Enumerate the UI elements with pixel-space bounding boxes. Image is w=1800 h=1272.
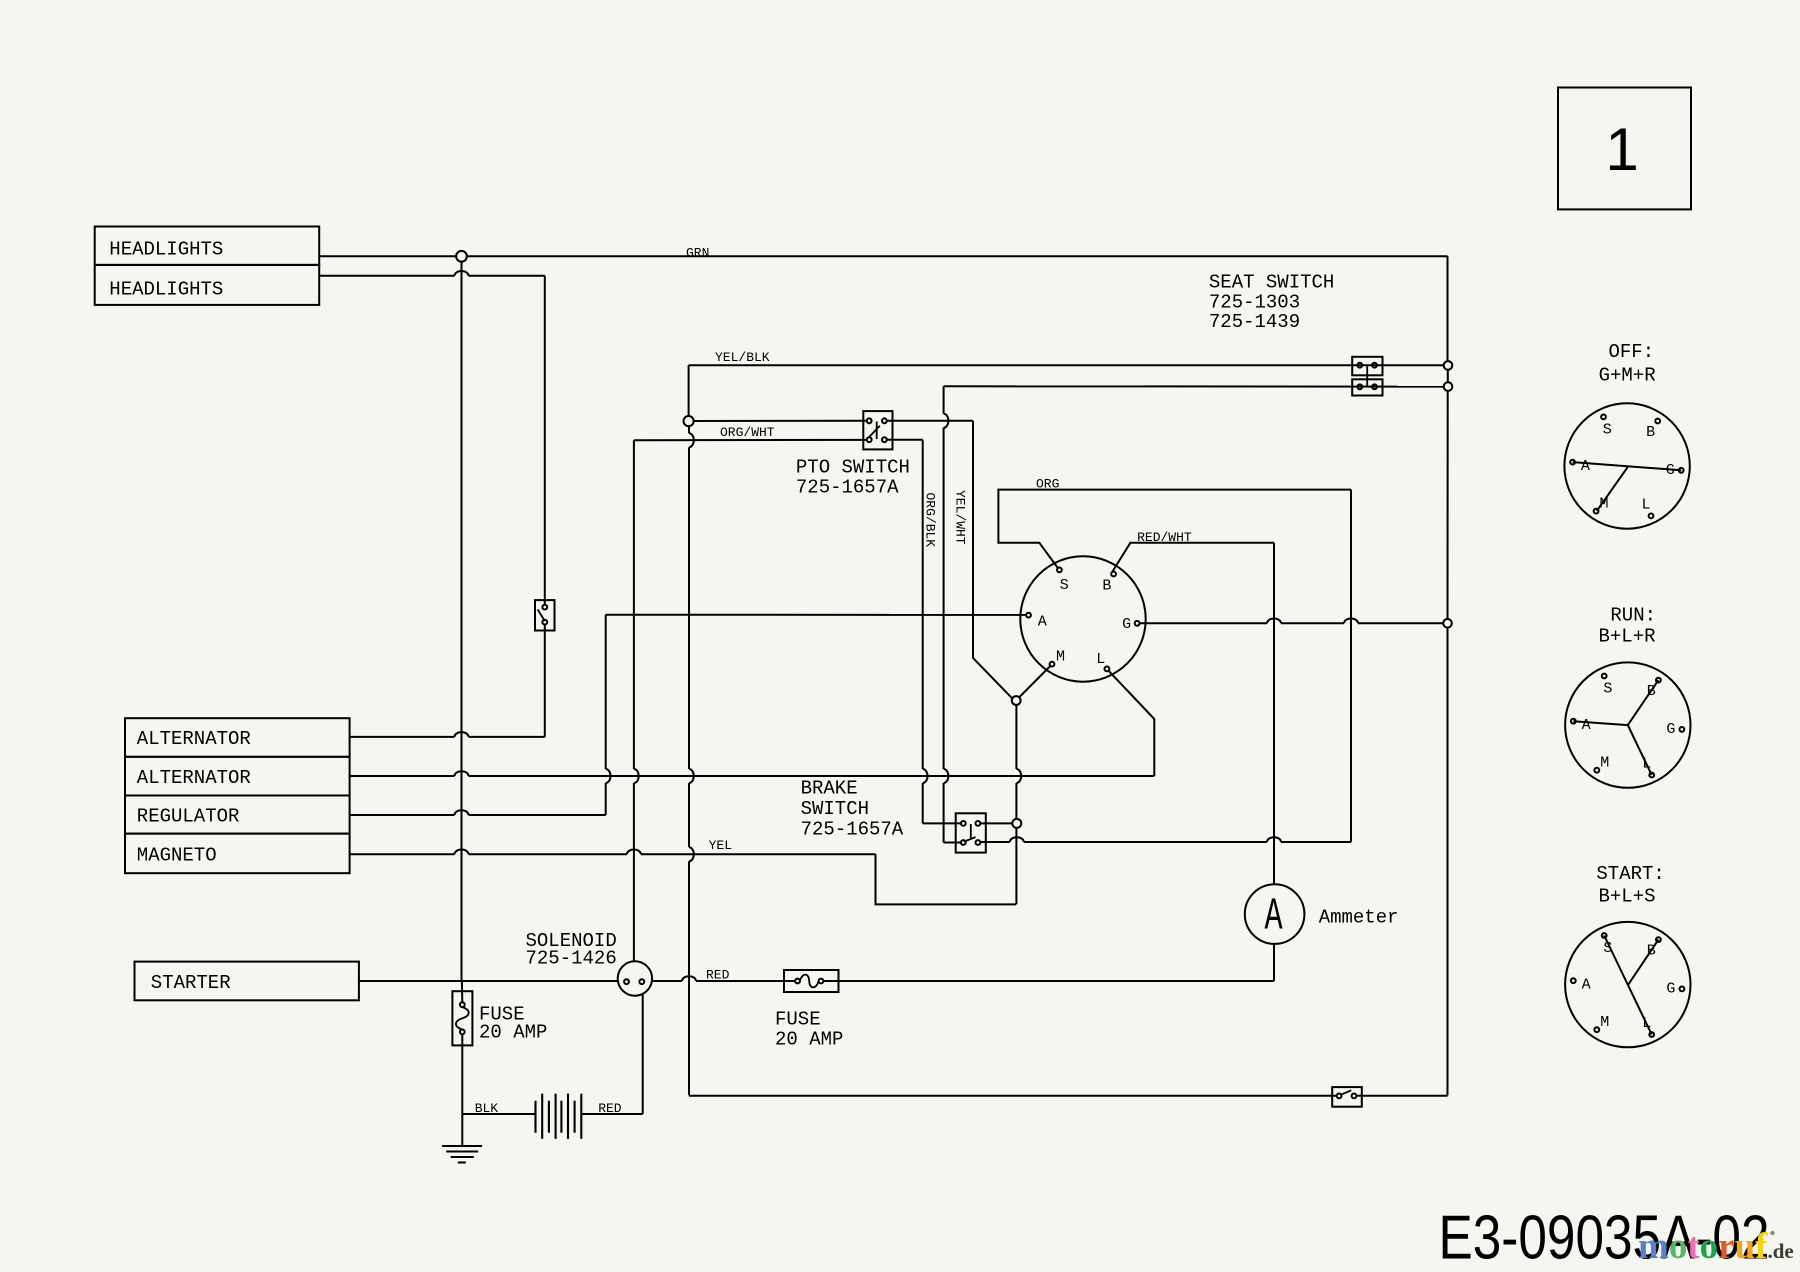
wire STARTER to solenoid — [359, 980, 618, 982]
node brake connector circle — [1012, 819, 1021, 828]
solenoid circle — [618, 961, 652, 995]
wire SW1 drop and alternator link — [544, 276, 546, 737]
OFF position contact line — [1573, 462, 1682, 470]
box HEADLIGHTS (lower) — [95, 265, 320, 305]
battery — [536, 1094, 582, 1139]
RUN position contact line — [1628, 680, 1659, 725]
lever PTO — [869, 422, 879, 440]
ammeter circle — [1245, 884, 1305, 944]
svg-text:REGULATOR: REGULATOR — [137, 806, 240, 828]
svg-text:B: B — [1102, 578, 1111, 595]
brake switch box — [956, 813, 986, 852]
wire ORG/WHT to PTO — [634, 439, 867, 441]
wire MAGNETO YEL to brake node — [350, 850, 1016, 905]
svg-text:STARTER: STARTER — [151, 972, 231, 994]
svg-text:A: A — [1581, 458, 1590, 475]
pin PTO top-left — [867, 418, 872, 423]
switch SW1 (headlight circuit) — [535, 600, 555, 630]
START position contact line — [1628, 940, 1658, 985]
wire PTO bottom-right to ORG/BLK drop — [887, 439, 923, 441]
svg-text:MAGNETO: MAGNETO — [137, 845, 217, 867]
svg-text:START:: START: — [1596, 863, 1664, 885]
node bus circle lower — [1444, 382, 1453, 391]
fuse1 element — [456, 1007, 469, 1029]
svg-text:BRAKE: BRAKE — [801, 778, 858, 800]
lever brake — [964, 824, 976, 842]
svg-text:B: B — [1646, 424, 1655, 441]
fuse2 element — [800, 975, 819, 988]
svg-text:A: A — [1582, 977, 1591, 994]
wire PTO top from junction — [693, 420, 867, 422]
pin brake TR — [976, 821, 981, 826]
pin fuse2 right — [819, 979, 824, 984]
wire vertical from headlight junction to starter bus — [461, 261, 464, 1114]
sheet number box — [1558, 88, 1691, 210]
pin PTO bottom-right — [882, 437, 887, 442]
pin fuse2 left — [795, 979, 800, 984]
OFF position pin L — [1649, 514, 1654, 519]
wire A-line vertical x606 — [606, 615, 611, 815]
wire seat lower feed — [944, 385, 1444, 387]
box MAGNETO — [125, 834, 350, 874]
svg-text:L: L — [1096, 651, 1105, 668]
svg-text:20 AMP: 20 AMP — [775, 1029, 843, 1051]
wire ground drop — [461, 1114, 463, 1146]
wire G line to bus — [1140, 619, 1444, 624]
box STARTER — [135, 962, 359, 1001]
svg-text:20 AMP: 20 AMP — [479, 1021, 547, 1043]
svg-text:A: A — [1582, 717, 1591, 734]
svg-text:A: A — [1038, 614, 1047, 631]
wire RED/WHT from B — [1112, 543, 1274, 572]
OFF position pin M — [1594, 509, 1599, 514]
svg-text:ORG: ORG — [1036, 477, 1059, 492]
START position circle — [1565, 922, 1690, 1047]
box ALTERNATOR (lower) — [125, 757, 350, 796]
pin fuse1 bottom — [460, 1030, 465, 1035]
wire ALTERNATOR lower to ignition L — [350, 671, 1155, 776]
svg-text:G: G — [1666, 980, 1675, 997]
svg-text:725-1303: 725-1303 — [1209, 291, 1300, 313]
svg-text:HEADLIGHTS: HEADLIGHTS — [109, 239, 223, 261]
wire ORG/BLK vertical x923 — [923, 440, 961, 824]
svg-text:ORG/BLK: ORG/BLK — [923, 493, 938, 548]
wire ignition A terminal line — [606, 614, 1026, 616]
OFF position pin G — [1679, 468, 1684, 473]
pin seat BL — [1357, 384, 1362, 389]
svg-text:RUN:: RUN: — [1610, 605, 1656, 627]
box HEADLIGHTS (upper) — [95, 227, 320, 265]
RUN position pin A — [1571, 719, 1576, 724]
RUN position circle — [1565, 662, 1690, 787]
svg-text:725-1657A: 725-1657A — [796, 477, 899, 499]
wire PTO top-right to YEL/WHT drop — [887, 420, 973, 422]
RUN position pin L — [1649, 773, 1654, 778]
START position pin M — [1594, 1027, 1599, 1032]
svg-text:725-1426: 725-1426 — [526, 948, 617, 970]
pin seat TR — [1372, 363, 1377, 368]
RUN position pin G — [1680, 727, 1685, 732]
pin SW1 bottom — [542, 620, 547, 625]
pin ignition M — [1050, 662, 1055, 667]
OFF position pin S — [1601, 415, 1606, 420]
lever SW2 — [1341, 1090, 1351, 1094]
wire YEL/WHT vertical x973 — [973, 421, 1013, 699]
svg-text:SEAT SWITCH: SEAT SWITCH — [1209, 272, 1334, 294]
node headlight junction — [456, 251, 467, 262]
svg-text:S: S — [1603, 422, 1612, 439]
svg-text:ALTERNATOR: ALTERNATOR — [137, 728, 251, 750]
pin ignition L — [1105, 667, 1110, 672]
OFF position contact line — [1597, 467, 1628, 511]
svg-text:YEL/BLK: YEL/BLK — [715, 350, 770, 365]
wire brake BR to ORG corner — [980, 837, 1351, 842]
pin solenoid right — [639, 979, 644, 984]
pin solenoid left — [624, 979, 629, 984]
svg-text:M: M — [1056, 649, 1065, 666]
ignition switch circle — [1020, 556, 1145, 681]
OFF position pin B — [1655, 419, 1660, 424]
fuse2 box — [784, 970, 839, 992]
wire bottom bus — [689, 1095, 1448, 1097]
wire ORG/WHT vertical x634 to solenoid — [634, 440, 639, 961]
wire RED solenoid to fuse2 — [652, 976, 795, 981]
svg-text:A: A — [1264, 891, 1282, 943]
svg-text:B+L+R: B+L+R — [1599, 626, 1656, 648]
pin PTO top-right — [882, 418, 887, 423]
wire YEL/BLK to seat switch — [689, 364, 1445, 366]
START position contact line — [1604, 936, 1652, 1035]
pin ignition S — [1057, 568, 1062, 573]
node PTO junction — [684, 416, 694, 426]
pin SW2 left — [1337, 1094, 1342, 1099]
svg-text:1: 1 — [1605, 116, 1638, 183]
pto switch box — [863, 411, 892, 449]
wire REGULATOR to A-line corner — [350, 810, 606, 815]
wire junction to brake connector — [1016, 705, 1021, 905]
pin brake BR — [976, 840, 981, 845]
wire fuse1 to battery BLK — [462, 1113, 535, 1115]
svg-text:BLK: BLK — [475, 1101, 499, 1116]
START position pin S — [1602, 933, 1607, 938]
watermark dot — [1770, 1231, 1774, 1235]
node bus circle YEL/BLK — [1444, 361, 1453, 370]
START position pin A — [1571, 978, 1576, 983]
box ALTERNATOR (upper) — [125, 718, 350, 757]
RUN position pin S — [1602, 674, 1607, 679]
svg-text:M: M — [1600, 1014, 1609, 1031]
lever SW1 — [538, 609, 545, 621]
wire battery RED to solenoid — [581, 993, 642, 1114]
seat connector upper box — [1352, 357, 1382, 376]
svg-text:YEL/WHT: YEL/WHT — [953, 490, 968, 545]
svg-text:G+M+R: G+M+R — [1599, 365, 1656, 387]
switch SW2 box — [1332, 1087, 1362, 1107]
svg-text:B+L+S: B+L+S — [1599, 886, 1656, 908]
wire brake TR to connector — [980, 822, 1012, 824]
wire ORG to S terminal — [998, 490, 1351, 568]
svg-text:ALTERNATOR: ALTERNATOR — [137, 767, 251, 789]
fuse1 box — [452, 991, 472, 1045]
OFF position pin A — [1570, 460, 1575, 465]
wire x689 vertical YEL/BLK corner to bottom bus — [689, 365, 694, 1095]
seat connector link — [1366, 365, 1368, 387]
pin ignition B — [1111, 572, 1116, 577]
box REGULATOR — [125, 796, 350, 834]
pin ignition A — [1026, 613, 1031, 618]
svg-text:FUSE: FUSE — [775, 1009, 821, 1031]
START position pin B — [1656, 937, 1661, 942]
svg-text:S: S — [1060, 577, 1069, 594]
svg-text:RED: RED — [598, 1101, 622, 1116]
svg-text:M: M — [1600, 754, 1609, 771]
pin ignition G — [1135, 621, 1140, 626]
svg-text:PTO SWITCH: PTO SWITCH — [796, 456, 910, 478]
ground symbol — [442, 1146, 482, 1163]
wire x944 vertical seat lower to brake — [944, 386, 961, 842]
svg-text:725-1657A: 725-1657A — [801, 819, 904, 841]
pin seat TL — [1357, 363, 1362, 368]
RUN position contact line — [1628, 725, 1652, 775]
wire RED/WHT vertical to ammeter — [1273, 543, 1275, 885]
wire ORG vertical x1350 — [1350, 490, 1352, 842]
svg-text:S: S — [1603, 681, 1612, 698]
svg-text:GRN: GRN — [686, 246, 709, 261]
node bus circle G — [1443, 619, 1452, 628]
pin SW2 right — [1352, 1094, 1357, 1099]
pin fuse1 top — [460, 1002, 465, 1007]
svg-text:G: G — [1122, 616, 1131, 633]
svg-text:SWITCH: SWITCH — [801, 798, 869, 820]
wire GRN headlights to right bus — [319, 255, 1447, 257]
OFF position circle — [1564, 403, 1689, 528]
pin PTO bottom-left — [867, 437, 872, 442]
wire headlights lower to switch SW1 — [319, 271, 545, 276]
RUN position pin B — [1656, 678, 1661, 683]
pin brake BL — [961, 840, 966, 845]
START position pin L — [1649, 1032, 1654, 1037]
START position pin G — [1680, 987, 1685, 992]
svg-text:L: L — [1641, 496, 1650, 513]
svg-text:Ammeter: Ammeter — [1319, 906, 1399, 928]
pin seat BR — [1372, 384, 1377, 389]
wire right bus vertical — [1447, 256, 1449, 1095]
svg-text:HEADLIGHTS: HEADLIGHTS — [109, 279, 223, 301]
pin SW1 top — [542, 605, 547, 610]
RUN position contact line — [1573, 721, 1628, 725]
wire M to junction — [1019, 666, 1050, 698]
node M junction circle — [1012, 696, 1021, 705]
seat connector lower box — [1352, 379, 1382, 395]
svg-text:ORG/WHT: ORG/WHT — [720, 425, 775, 440]
svg-text:OFF:: OFF: — [1609, 341, 1655, 363]
wire ALTERNATOR upper to SW1 — [350, 732, 545, 737]
wire RED fuse2 to ammeter — [824, 944, 1275, 981]
svg-text:725-1439: 725-1439 — [1209, 311, 1300, 333]
svg-text:RED/WHT: RED/WHT — [1137, 530, 1192, 545]
pin brake TL — [961, 821, 966, 826]
svg-text:G: G — [1666, 721, 1675, 738]
svg-text:YEL: YEL — [709, 838, 732, 853]
RUN position pin M — [1594, 768, 1599, 773]
